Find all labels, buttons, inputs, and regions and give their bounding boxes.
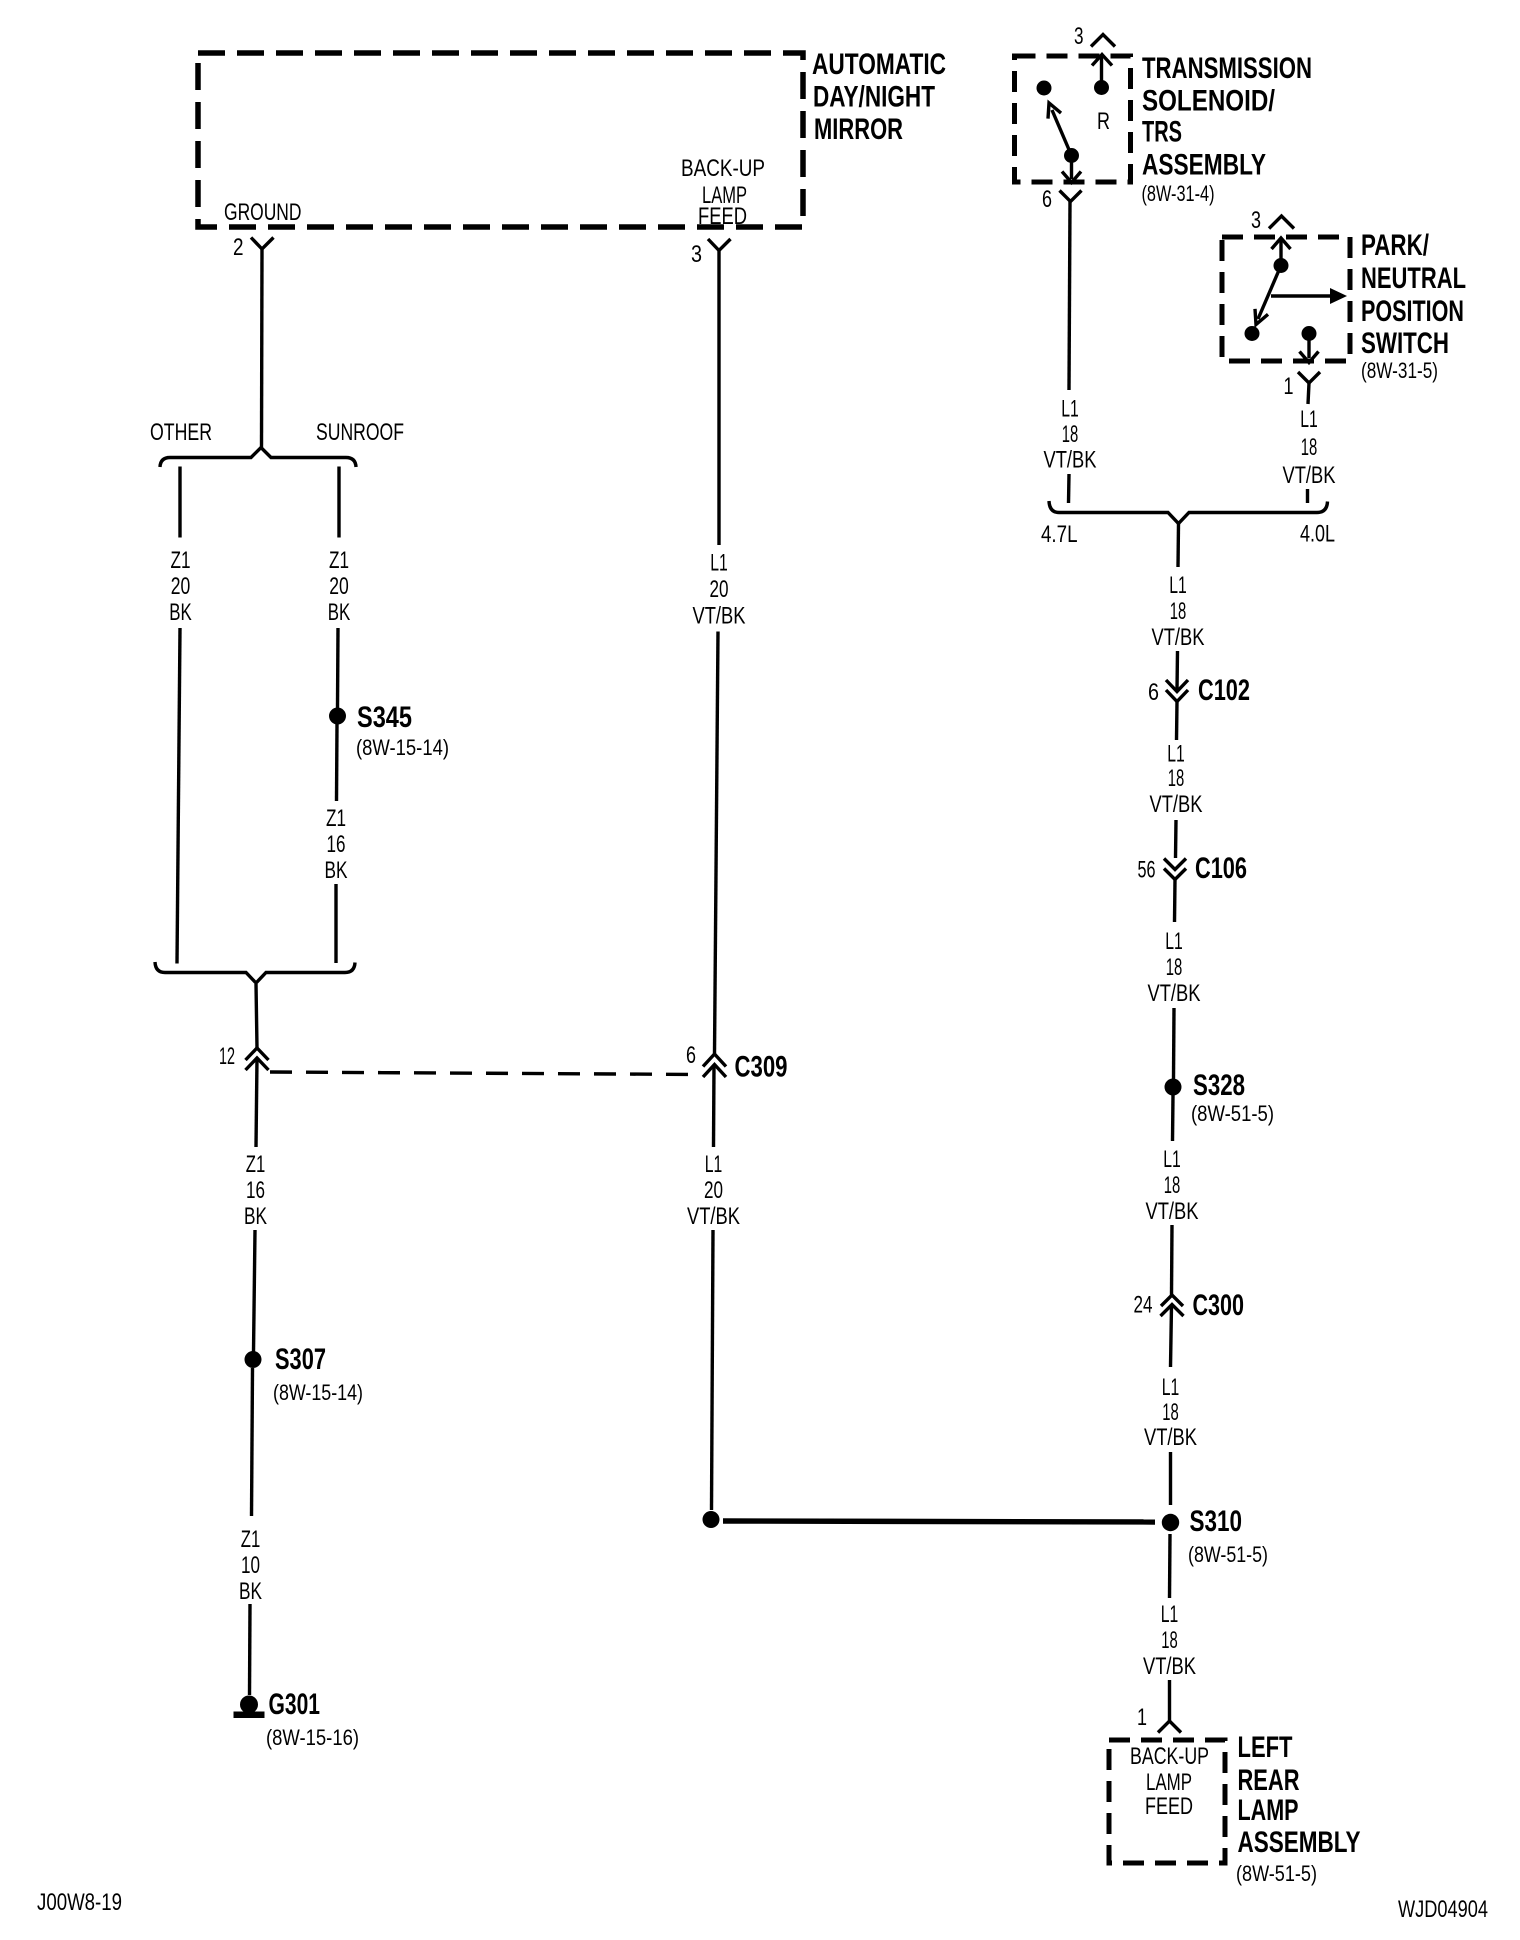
svg-text:ASSEMBLY: ASSEMBLY: [1238, 1826, 1361, 1859]
svg-text:SUNROOF: SUNROOF: [316, 419, 404, 446]
svg-text:6: 6: [1042, 186, 1052, 213]
wire: connector 12 down: [256, 1058, 257, 1147]
wire: SUNROOF branch bottom segment: [334, 884, 337, 963]
svg-text:L1: L1: [1161, 1601, 1179, 1628]
dashed connector tie line from 12 to C309: [270, 1072, 702, 1075]
solenoid R contact dot: [1094, 80, 1109, 95]
svg-text:3: 3: [691, 241, 702, 268]
svg-text:L1: L1: [1169, 572, 1187, 599]
svg-text:BK: BK: [325, 857, 348, 884]
svg-text:NEUTRAL: NEUTRAL: [1361, 262, 1466, 295]
svg-text:18: 18: [1168, 765, 1185, 792]
svg-text:C106: C106: [1195, 852, 1247, 885]
solenoid internal down-arrow to pin 6: [1062, 160, 1081, 183]
wire: S345 down: [335, 724, 339, 801]
svg-text:(8W-51-5): (8W-51-5): [1188, 1542, 1268, 1567]
svg-text:POSITION: POSITION: [1361, 295, 1464, 328]
svg-text:Z1: Z1: [246, 1151, 266, 1178]
wire: feed down to connector C309: [715, 632, 719, 1055]
solenoid common contact dot: [1064, 148, 1079, 163]
wire label L1 20 VT/BK (upper feed): [693, 550, 746, 630]
svg-text:C102: C102: [1198, 674, 1250, 707]
wire label L1 18 VT/BK (merged, above C102): [1152, 572, 1205, 651]
svg-text:BK: BK: [239, 1578, 262, 1605]
svg-text:24: 24: [1134, 1292, 1153, 1319]
svg-text:L1: L1: [705, 1151, 723, 1178]
svg-text:R: R: [1097, 108, 1110, 135]
P/N internal down-arrow to pin 1: [1300, 339, 1319, 363]
svg-text:L1: L1: [710, 550, 728, 577]
svg-text:20: 20: [710, 576, 729, 603]
svg-text:L1: L1: [1061, 396, 1079, 423]
engine variant merge brace: [1049, 501, 1328, 524]
P/N actuation arrow (horizontal): [1271, 288, 1347, 304]
BACK-UP LAMP FEED pin function label: [681, 155, 765, 230]
left rear lamp assembly (dashed component box): [1109, 1740, 1225, 1863]
svg-text:(8W-51-5): (8W-51-5): [1236, 1861, 1317, 1886]
wire: SUNROOF branch upper segment: [337, 467, 340, 538]
wire label L1 18 VT/BK (solenoid branch): [1044, 396, 1097, 474]
solenoid pin 6 connector Y: [1060, 191, 1082, 202]
svg-text:20: 20: [704, 1177, 723, 1204]
automatic day/night mirror (dashed component box): [198, 53, 803, 227]
svg-text:MIRROR: MIRROR: [814, 113, 903, 146]
transmission solenoid/TRS assembly (dashed component box): [1015, 56, 1131, 182]
wire: P/N branch stub into brace: [1306, 489, 1309, 503]
wire: C102 down: [1175, 702, 1179, 741]
svg-text:L1: L1: [1162, 1374, 1180, 1401]
wire: OTHER branch long segment down to merge brace: [177, 628, 180, 964]
P/N switch pin 3 chevron (mating half above box): [1269, 216, 1294, 229]
svg-text:18: 18: [1162, 1399, 1179, 1426]
svg-text:Z1: Z1: [171, 547, 191, 574]
svg-text:SWITCH: SWITCH: [1361, 327, 1449, 360]
wire: S307 down: [252, 1368, 253, 1516]
svg-text:DAY/NIGHT: DAY/NIGHT: [813, 81, 935, 114]
svg-text:VT/BK: VT/BK: [1044, 447, 1097, 474]
svg-text:BK: BK: [244, 1203, 267, 1230]
wire: S310 down: [1168, 1534, 1172, 1598]
svg-text:L1: L1: [1300, 406, 1318, 433]
svg-text:L1: L1: [1167, 741, 1185, 768]
lamp pin 1 connector Y (opens toward box): [1158, 1721, 1181, 1733]
lamp assembly name label: [1238, 1731, 1361, 1859]
svg-text:6: 6: [1148, 679, 1159, 706]
connector C102 chevrons: [1166, 680, 1188, 692]
svg-text:VT/BK: VT/BK: [1143, 1653, 1196, 1680]
wire: down to lamp pin 1: [1168, 1680, 1171, 1721]
pin 2 connector Y: [251, 238, 274, 250]
svg-text:(8W-31-5): (8W-31-5): [1361, 358, 1438, 383]
splice S345: [329, 708, 346, 725]
junction node dot (feed to S310 tie): [703, 1511, 720, 1528]
splice S328: [1165, 1079, 1182, 1096]
svg-text:18: 18: [1062, 421, 1079, 448]
svg-text:BACK-UP: BACK-UP: [1130, 1743, 1209, 1770]
P/N bottom-right contact dot: [1302, 326, 1317, 341]
svg-text:(8W-51-5): (8W-51-5): [1191, 1101, 1274, 1126]
ground G301 symbol: [234, 1696, 265, 1719]
svg-text:1: 1: [1284, 373, 1294, 400]
wire label L1 18 VT/BK (between C106 and S328): [1148, 928, 1201, 1007]
split brace (ground to OTHER / SUNROOF branches): [160, 448, 356, 468]
svg-text:S328: S328: [1193, 1069, 1245, 1102]
svg-text:18: 18: [1164, 1172, 1181, 1199]
svg-text:LAMP: LAMP: [1238, 1794, 1299, 1827]
svg-text:VT/BK: VT/BK: [1152, 624, 1205, 651]
solenoid left contact dot: [1037, 81, 1052, 96]
wire: feed down to junction with S310 bus: [712, 1230, 714, 1510]
svg-text:AUTOMATIC: AUTOMATIC: [812, 48, 946, 81]
svg-text:WJD04904: WJD04904: [1398, 1896, 1488, 1923]
park/neutral position switch (dashed component box): [1222, 237, 1350, 361]
wire label Z1 16 BK (SUNROOF branch lower): [325, 805, 348, 884]
wire: S328 down: [1171, 1095, 1175, 1141]
wire label L1 18 VT/BK (between C300 and S310): [1144, 1374, 1197, 1451]
mirror name label: [812, 48, 946, 146]
connector C106 chevrons: [1164, 859, 1186, 870]
svg-text:FEED: FEED: [1145, 1793, 1193, 1820]
svg-text:3: 3: [1251, 207, 1261, 234]
svg-text:16: 16: [327, 831, 346, 858]
svg-text:18: 18: [1301, 434, 1318, 461]
svg-text:C309: C309: [735, 1051, 788, 1084]
solenoid switch blade with arrowhead: [1048, 103, 1072, 156]
wire: horizontal tie line to splice S310: [723, 1521, 1155, 1522]
svg-text:BK: BK: [169, 599, 192, 626]
splice S307: [245, 1351, 262, 1368]
wire: down to splice S310: [1169, 1452, 1172, 1505]
svg-text:1: 1: [1137, 1704, 1147, 1731]
wire: C106 down: [1173, 880, 1177, 923]
svg-text:G301: G301: [269, 1688, 321, 1721]
solenoid name label: [1142, 52, 1312, 182]
svg-text:VT/BK: VT/BK: [1148, 980, 1201, 1007]
svg-text:GROUND: GROUND: [224, 199, 302, 226]
wire: down to ground G301: [248, 1604, 252, 1695]
svg-text:VT/BK: VT/BK: [1283, 462, 1336, 489]
svg-text:18: 18: [1161, 1627, 1178, 1654]
svg-text:(8W-15-16): (8W-15-16): [266, 1725, 359, 1750]
wire label Z1 10 BK: [239, 1526, 262, 1605]
svg-text:18: 18: [1170, 598, 1187, 625]
svg-text:20: 20: [171, 573, 191, 600]
wire: down to splice S307: [254, 1230, 256, 1352]
svg-text:BK: BK: [328, 599, 351, 626]
svg-text:J00W8-19: J00W8-19: [37, 1889, 122, 1916]
svg-text:C300: C300: [1193, 1289, 1245, 1322]
wire label Z1 20 BK (OTHER branch): [169, 547, 192, 626]
svg-text:56: 56: [1138, 857, 1156, 884]
svg-text:18: 18: [1166, 954, 1183, 981]
BACK-UP LAMP FEED pin function label (lamp box): [1130, 1743, 1209, 1820]
svg-text:ASSEMBLY: ASSEMBLY: [1142, 149, 1266, 182]
svg-text:VT/BK: VT/BK: [687, 1203, 740, 1230]
P/N top contact dot: [1274, 258, 1289, 273]
wire: down to splice S328: [1172, 1008, 1176, 1079]
svg-text:S310: S310: [1190, 1505, 1243, 1538]
wire: P/N pin 1 down to engine brace: [1308, 383, 1309, 404]
svg-text:2: 2: [233, 234, 244, 261]
connector C309 chevrons: [703, 1054, 726, 1067]
svg-text:16: 16: [246, 1177, 265, 1204]
wire: mirror pin 2 ground down to split brace: [260, 249, 264, 448]
svg-text:4.7L: 4.7L: [1041, 521, 1078, 548]
svg-text:Z1: Z1: [329, 547, 349, 574]
wire: down to connector C106: [1174, 820, 1178, 858]
wire label L1 18 VT/BK (P/N branch): [1283, 406, 1336, 489]
svg-text:S345: S345: [357, 701, 412, 734]
svg-text:TRANSMISSION: TRANSMISSION: [1142, 52, 1312, 85]
svg-text:OTHER: OTHER: [150, 419, 212, 446]
wire: SUNROOF branch to splice S345: [336, 628, 340, 708]
svg-text:(8W-31-4): (8W-31-4): [1142, 181, 1215, 206]
svg-text:(8W-15-14): (8W-15-14): [356, 735, 449, 760]
merge brace (branches rejoin): [155, 962, 355, 983]
svg-text:LAMP: LAMP: [1146, 1769, 1192, 1796]
wire: C309 down: [712, 1065, 716, 1148]
solenoid internal up-arrow to pin 3: [1092, 55, 1112, 88]
svg-text:20: 20: [329, 573, 349, 600]
wire label Z1 20 BK (SUNROOF branch): [328, 547, 351, 626]
svg-text:VT/BK: VT/BK: [1150, 791, 1203, 818]
wire label L1 18 VT/BK (between C102 and C106): [1150, 741, 1203, 819]
P/N bottom-left contact dot: [1245, 326, 1260, 341]
P/N switch name label: [1361, 229, 1466, 360]
svg-text:L1: L1: [1163, 1146, 1181, 1173]
in-line connector chevrons (left half of C309): [246, 1048, 269, 1060]
wire: down to connector C102: [1175, 651, 1179, 690]
P/N internal up-arrow to pin 3: [1272, 238, 1291, 265]
svg-text:Z1: Z1: [326, 805, 346, 832]
connector C300 chevrons: [1161, 1295, 1183, 1306]
wire: C300 down: [1171, 1305, 1172, 1367]
svg-text:REAR: REAR: [1238, 1764, 1300, 1797]
wire: solenoid pin 6 down to engine brace: [1069, 202, 1070, 391]
svg-text:12: 12: [219, 1043, 235, 1070]
wire label L1 18 VT/BK (between S328 and C300): [1146, 1146, 1199, 1225]
svg-text:BACK-UP: BACK-UP: [681, 155, 765, 182]
svg-text:TRS: TRS: [1142, 116, 1182, 149]
svg-text:FEED: FEED: [698, 203, 747, 230]
svg-text:10: 10: [241, 1552, 260, 1579]
svg-text:4.0L: 4.0L: [1300, 521, 1335, 548]
P/N pin 1 connector Y: [1298, 372, 1320, 383]
wire: solenoid branch stub into brace: [1067, 474, 1071, 503]
pin 3 connector Y: [708, 239, 731, 251]
P/N switch blade with arrowhead: [1255, 266, 1281, 325]
svg-text:Z1: Z1: [241, 1526, 261, 1553]
wire: down to connector C300: [1170, 1225, 1174, 1295]
svg-text:PARK/: PARK/: [1361, 229, 1429, 262]
solenoid pin 3 chevron (mating half above box): [1091, 35, 1115, 47]
wire label L1 18 VT/BK (below S310): [1143, 1601, 1196, 1680]
wire: brace dip down (merged feed): [1176, 524, 1180, 568]
svg-text:S307: S307: [275, 1343, 326, 1376]
wire: mirror pin 3 back-up lamp feed down: [717, 251, 720, 546]
svg-text:6: 6: [686, 1042, 696, 1069]
splice S310: [1162, 1514, 1179, 1531]
svg-text:VT/BK: VT/BK: [1146, 1198, 1199, 1225]
wire: OTHER branch upper segment: [178, 467, 181, 538]
svg-text:(8W-15-14): (8W-15-14): [273, 1380, 363, 1405]
svg-text:L1: L1: [1165, 928, 1183, 955]
svg-text:LEFT: LEFT: [1238, 1731, 1293, 1764]
wire label Z1 16 BK (below connector 12): [244, 1151, 267, 1230]
wire: merge brace down to in-line connector 12: [256, 984, 257, 1048]
svg-text:3: 3: [1074, 23, 1084, 50]
wire label L1 20 VT/BK (lower feed): [687, 1151, 740, 1230]
svg-text:VT/BK: VT/BK: [693, 603, 746, 630]
svg-text:VT/BK: VT/BK: [1144, 1424, 1197, 1451]
svg-text:SOLENOID/: SOLENOID/: [1142, 85, 1276, 118]
